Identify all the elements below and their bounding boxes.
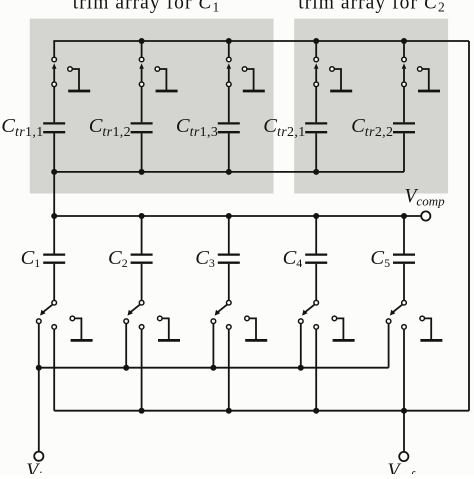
trim switch S1t off-position contact (68, 67, 91, 91)
switch S2 arm (arrow to left throw) (128, 304, 141, 315)
switch S4 arm (arrow to left throw) (302, 304, 315, 315)
wire: mid bus to capacitor C4 (315, 216, 317, 254)
trim switch S3t arm (up arrow) (227, 63, 232, 82)
wire: S3 left throw to bus A (212, 323, 214, 367)
wire: S5 left throw to bus A (388, 323, 390, 367)
label: capacitor Ctr1,1 (1, 115, 43, 140)
switch S4 pole contact (314, 300, 319, 305)
capacitor C4 (305, 255, 327, 263)
trim switch S3t upper contact (227, 57, 232, 62)
switch S5 lower throw contact (402, 325, 407, 330)
label: Vin (26, 461, 49, 479)
switch S2 off-position contact (158, 316, 181, 340)
trim switch S2t arm (up arrow) (139, 63, 144, 82)
label: capacitor C1 (21, 247, 41, 270)
switch S4 lower throw contact (314, 325, 319, 330)
node: mid bus junction at C2 (139, 213, 145, 219)
wire: S1 left throw to bus A (38, 323, 40, 367)
wire: capacitor C3 to switch S3 (228, 264, 230, 301)
svg-text:trim array for C1: trim array for C1 (73, 0, 219, 14)
switch S5 off-position contact (420, 316, 442, 340)
switch S2 lower throw contact (139, 325, 144, 330)
wire: mid bus to Vcomp terminal (404, 215, 421, 217)
trim switch S5t lower contact (402, 82, 407, 87)
trim array 1 region (shaded box) (30, 19, 274, 194)
wire: top bus to trim switch S2t (141, 41, 143, 57)
wire: capacitor Ctr2,2 to trim bus (403, 133, 405, 172)
node: trim bus junction at branch 1 (51, 169, 57, 175)
node: trim bus junction at branch 2 (139, 169, 145, 175)
capacitor Ctr2,2 (393, 123, 415, 132)
wire: right-side vertical (top bus to bottom bus) (468, 41, 470, 411)
wire: capacitor C4 to switch S4 (315, 264, 317, 301)
wire: top bus to trim switch S4t (315, 41, 317, 57)
node: mid bus junction at C3 (226, 213, 232, 219)
capacitor C2 (131, 255, 153, 263)
wire: S4 lower throw to bottom bus B (315, 329, 317, 411)
switch S3 pole contact (227, 300, 232, 305)
switch S5 pole contact (402, 300, 407, 305)
node: bus A junction at S1 (36, 365, 42, 371)
switch S3 arm (arrow to left throw) (215, 304, 228, 315)
label: capacitor Ctr2,1 (263, 115, 305, 140)
svg-text:trim array for C2: trim array for C2 (298, 0, 444, 14)
switch S5 left throw contact (386, 319, 391, 324)
switch S1 lower throw contact (52, 325, 57, 330)
node: top bus junction at branch 4 (313, 38, 319, 44)
label: capacitor Ctr1,2 (89, 115, 131, 140)
switch S2 pole contact (139, 300, 144, 305)
wire: S4 left throw to bus A (300, 323, 302, 367)
trim switch S5t off-position contact (418, 67, 441, 91)
wire: top bus to trim switch S3t (228, 41, 230, 57)
trim array 2 region (shaded box) (294, 19, 448, 194)
label: Vcomp (405, 186, 446, 209)
wire: S2 left throw to bus A (125, 323, 127, 367)
wire: S2 lower throw to bottom bus B (141, 329, 143, 411)
capacitor C3 (218, 255, 240, 263)
trim switch S1t upper contact (52, 57, 57, 62)
wire: bottom bus B (Vref node) (54, 410, 469, 412)
switch S1 left throw contact (37, 319, 42, 324)
node: mid bus junction at C5 (401, 213, 407, 219)
terminal Vref (399, 452, 408, 461)
label: capacitor Ctr1,3 (176, 115, 218, 140)
switch S3 left throw contact (211, 319, 216, 324)
wire: capacitor Ctr1,1 to trim bus (53, 133, 55, 172)
trim switch S5t arm (up arrow) (402, 63, 407, 82)
wire: S5 lower throw to bottom bus B (403, 329, 405, 411)
wire: trim switch to capacitor Ctr1,2 (141, 87, 143, 123)
wire: trim switch to capacitor Ctr1,3 (228, 87, 230, 123)
label: capacitor C3 (195, 247, 215, 270)
label: trim array for C1 (73, 0, 219, 14)
label: capacitor Ctr2,2 (351, 115, 393, 140)
label: Vref (388, 461, 417, 479)
node: bus B junction at S5 (401, 408, 407, 414)
switch S2 left throw contact (124, 319, 129, 324)
switch S4 off-position contact (332, 316, 355, 340)
wire: trim-array bottom bus (54, 171, 404, 173)
wire: mid bus (Vcomp node) (54, 215, 404, 217)
capacitor Ctr1,2 (131, 123, 153, 132)
capacitor C1 (43, 255, 65, 263)
trim switch S4t upper contact (314, 57, 319, 62)
trim switch S2t lower contact (139, 82, 144, 87)
wire: capacitor Ctr2,1 to trim bus (315, 133, 317, 172)
node: trim bus junction at branch 4 (313, 169, 319, 175)
switch S5 arm (arrow to left throw) (390, 304, 403, 315)
wire: bus A (Vin node) (39, 367, 389, 369)
wire: top bus to trim switch S1t (53, 41, 55, 57)
trim switch S3t lower contact (227, 82, 232, 87)
trim switch S1t arm (up arrow) (52, 63, 57, 82)
node: bus A junction at S3 (210, 365, 216, 371)
wire: top bus (53, 40, 469, 42)
switch S1 off-position contact (70, 316, 93, 340)
wire: capacitor C2 to switch S2 (141, 264, 143, 301)
terminal Vin (34, 452, 43, 461)
wire: capacitor Ctr1,2 to trim bus (141, 133, 143, 172)
trim switch S2t upper contact (139, 57, 144, 62)
wire: S3 lower throw to bottom bus B (228, 329, 230, 411)
wire: trim switch to capacitor Ctr2,1 (315, 87, 317, 123)
capacitor Ctr1,3 (218, 123, 240, 132)
switch S4 left throw contact (299, 319, 304, 324)
node: bus B junction at S3 (226, 408, 232, 414)
wire: trim switch to capacitor Ctr2,2 (403, 87, 405, 123)
node: bus B junction at S4 (313, 408, 319, 414)
wire: trim bus to mid bus link (53, 172, 55, 216)
wire: mid bus to capacitor C1 (53, 216, 55, 254)
switch S3 lower throw contact (227, 325, 232, 330)
trim switch S5t upper contact (402, 57, 407, 62)
capacitor C5 (393, 255, 415, 263)
wire: mid bus to capacitor C5 (403, 216, 405, 254)
wire: bus B to Vref terminal (403, 411, 405, 452)
trim switch S2t off-position contact (155, 67, 178, 91)
capacitor Ctr1,1 (43, 123, 65, 132)
wire: top bus to trim switch S5t (403, 41, 405, 57)
wire: mid bus to capacitor C2 (141, 216, 143, 254)
node: bus A junction at S4 (298, 365, 304, 371)
wire: S1 lower throw to bottom bus B (53, 329, 55, 411)
label: capacitor C4 (283, 247, 303, 270)
label: capacitor C2 (108, 247, 128, 270)
trim switch S3t off-position contact (242, 67, 264, 91)
node: trim bus junction at branch 3 (226, 169, 232, 175)
node: bus B junction at S2 (139, 408, 145, 414)
node: mid bus junction at C4 (313, 213, 319, 219)
switch S1 arm (arrow to left throw) (40, 304, 53, 315)
label: trim array for C2 (298, 0, 444, 14)
trim switch S4t lower contact (314, 82, 319, 87)
wire: trim switch to capacitor Ctr1,1 (53, 87, 55, 123)
wire: capacitor C1 to switch S1 (53, 264, 55, 301)
trim switch S4t off-position contact (330, 67, 353, 91)
node: top bus junction at branch 2 (139, 38, 145, 44)
node: mid bus junction at C1 (51, 213, 57, 219)
wire: capacitor C5 to switch S5 (403, 264, 405, 301)
switch S3 off-position contact (245, 316, 268, 340)
trim switch S4t arm (up arrow) (314, 63, 319, 82)
capacitor Ctr2,1 (305, 123, 327, 132)
wire: bus A to Vin terminal (38, 368, 40, 451)
trim switch S1t lower contact (52, 82, 57, 87)
label: capacitor C5 (370, 247, 390, 270)
node: top bus junction at branch 3 (226, 38, 232, 44)
switch S1 pole contact (52, 300, 57, 305)
wire: mid bus to capacitor C3 (228, 216, 230, 254)
node: top bus junction at branch 5 (401, 38, 407, 44)
terminal Vcomp (421, 211, 430, 220)
wire: capacitor Ctr1,3 to trim bus (228, 133, 230, 172)
node: bus A junction at S2 (123, 365, 129, 371)
